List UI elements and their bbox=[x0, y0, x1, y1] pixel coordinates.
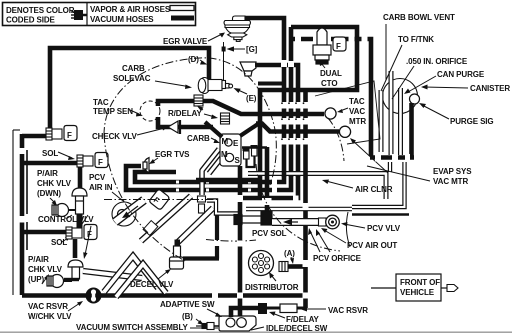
wire vertical bundle x284 bbox=[282, 66, 287, 177]
P/AIR check valve UP bbox=[47, 275, 72, 288]
hollow tube y209 air cleaner top bbox=[246, 207, 352, 212]
svg-text:PCV AIR OUT: PCV AIR OUT bbox=[347, 241, 397, 250]
svg-text:EGR VALVE: EGR VALVE bbox=[163, 37, 208, 46]
leader TAC VAC arrow bbox=[340, 108, 348, 111]
svg-text:VAC MTR: VAC MTR bbox=[433, 177, 468, 186]
svg-text:TAC: TAC bbox=[93, 98, 109, 107]
svg-text:CAN PURGE: CAN PURGE bbox=[437, 70, 485, 79]
wire R/DELAY line bbox=[158, 101, 324, 114]
label SOL upper bbox=[42, 149, 58, 158]
svg-text:CARB: CARB bbox=[122, 64, 145, 73]
svg-text:E: E bbox=[233, 139, 239, 148]
svg-text:VAC RSVR: VAC RSVR bbox=[28, 302, 68, 311]
dual CTO enclosure wires bbox=[260, 27, 357, 198]
svg-text:AIR IN: AIR IN bbox=[89, 183, 113, 192]
port B fitting bbox=[196, 323, 219, 330]
svg-text:DECEL VLV: DECEL VLV bbox=[130, 280, 174, 289]
label (D) bbox=[188, 55, 199, 64]
svg-text:ADAPTIVE SW: ADAPTIVE SW bbox=[160, 300, 215, 309]
label (E) bbox=[246, 94, 257, 103]
svg-text:F: F bbox=[336, 42, 341, 51]
svg-text:VAC: VAC bbox=[349, 107, 365, 116]
label EVAP SYS VAC MTR bbox=[433, 167, 472, 186]
svg-text:CTO: CTO bbox=[321, 79, 337, 88]
label CARB bbox=[187, 134, 210, 143]
label CONTROL VLV bbox=[38, 215, 94, 224]
leader SOL lower arrow bbox=[62, 238, 68, 242]
wire EGR valve to right bundle bbox=[245, 18, 284, 60]
svg-text:EGR TVS: EGR TVS bbox=[155, 150, 190, 159]
leader (D) arrow bbox=[200, 60, 204, 63]
label P/AIR CHK VLV (DWN) bbox=[37, 169, 72, 198]
leader ring arrow bbox=[68, 303, 80, 311]
svg-text:F/DELAY: F/DELAY bbox=[286, 315, 320, 324]
label DISTRIBUTOR bbox=[245, 283, 299, 292]
wire staircase corner x291 to row y190 bbox=[126, 166, 291, 190]
svg-text:VEHICLE: VEHICLE bbox=[400, 288, 435, 297]
air cleaner base line bbox=[352, 213, 409, 215]
leader (A) arrow bbox=[291, 257, 292, 261]
tilted F badge bbox=[149, 189, 170, 211]
svg-text:(DWN): (DWN) bbox=[37, 189, 61, 198]
wire stub to top solenoid bbox=[22, 134, 46, 139]
engine dash-dot outline curves bbox=[104, 58, 344, 261]
leader CANISTER arrow bbox=[424, 87, 468, 88]
hollow elbow tube at carb base bbox=[207, 201, 239, 214]
wire intake row under carb bbox=[196, 178, 262, 183]
wire vertical x305.5 from box bottom bbox=[303, 92, 308, 308]
leader TEMP SEN arrow bbox=[130, 110, 139, 114]
leader DISTRIBUTOR arrow bbox=[271, 275, 276, 281]
label ADAPTIVE SW bbox=[160, 300, 215, 309]
leader to UP cap bbox=[85, 226, 91, 255]
hollow tube pump to diagonals bbox=[83, 271, 142, 278]
legend vapor hose sample bbox=[170, 6, 194, 11]
carb box bbox=[220, 134, 241, 166]
svg-text:(UP): (UP) bbox=[28, 275, 44, 284]
EGR TVS mushroom bbox=[143, 158, 149, 173]
relay striped rect 2 bbox=[221, 113, 230, 124]
label (A) bbox=[284, 249, 295, 258]
leader PURGE SIG arrow bbox=[422, 105, 449, 119]
check valve cone bbox=[168, 120, 180, 134]
svg-text:CARB BOWL VENT: CARB BOWL VENT bbox=[383, 13, 455, 22]
svg-text:R/DELAY: R/DELAY bbox=[168, 109, 202, 118]
legend vacuum hose sample bbox=[171, 16, 194, 21]
wire bus to mid solenoid bbox=[22, 161, 77, 166]
carb fittings right side bbox=[243, 145, 258, 167]
EGR valve bbox=[224, 16, 251, 41]
leader EGR TVS arrow bbox=[152, 158, 158, 162]
label CAN PURGE bbox=[437, 70, 485, 79]
svg-text:P/AIR: P/AIR bbox=[37, 169, 58, 178]
wire lower solenoid down bbox=[73, 239, 78, 258]
TAC VAC MTR circle 1 bbox=[325, 108, 336, 119]
leader orifice bbox=[392, 66, 414, 99]
label PCV SOL bbox=[252, 229, 287, 238]
wire main vacuum line from (D) corner to left solenoid bbox=[50, 48, 209, 128]
wire decel riser bbox=[215, 213, 219, 259]
label DECEL VLV bbox=[130, 280, 174, 289]
leader AIR CLNR arrow bbox=[326, 181, 353, 188]
carb solevac cylinder bbox=[198, 78, 232, 94]
svg-text:[G]: [G] bbox=[246, 45, 258, 54]
label CARB BOWL VENT bbox=[383, 13, 455, 22]
canister circle bbox=[383, 79, 418, 114]
label PCV ORFICE bbox=[313, 254, 362, 263]
thin assembly boundary bbox=[12, 130, 14, 295]
svg-text:(E): (E) bbox=[246, 94, 257, 103]
label (B) bbox=[182, 312, 193, 321]
carb funnel diagonals bbox=[205, 122, 222, 137]
decel valve bbox=[170, 240, 184, 270]
svg-text:.050 IN. ORIFICE: .050 IN. ORIFICE bbox=[406, 57, 468, 66]
leader PCV VLV arrow bbox=[344, 224, 365, 228]
leader TO F/TNK bbox=[381, 45, 402, 91]
label PURGE SIG bbox=[450, 117, 494, 126]
svg-text:M: M bbox=[221, 150, 228, 159]
wire dual CTO inner stub right to canister feed bbox=[331, 39, 371, 156]
svg-text:TAC: TAC bbox=[349, 97, 365, 106]
svg-text:PURGE SIG: PURGE SIG bbox=[450, 117, 494, 126]
node TAC TEMP SEN dashed circle bbox=[140, 101, 160, 121]
wire canister bottom row bbox=[370, 155, 414, 160]
svg-text:PCV ORFICE: PCV ORFICE bbox=[313, 254, 362, 263]
svg-text:CODED SIDE: CODED SIDE bbox=[6, 16, 56, 25]
svg-text:PCV SOL: PCV SOL bbox=[252, 229, 287, 238]
purge sig circle bbox=[410, 94, 420, 104]
label .050 IN. ORIFICE bbox=[406, 57, 468, 66]
bottom page rule bbox=[0, 332, 512, 333]
svg-text:VAPOR & AIR HOSES: VAPOR & AIR HOSES bbox=[90, 5, 171, 14]
PCV hose hollow tube bbox=[272, 218, 326, 226]
leader CONTROL VLV arrows bbox=[66, 215, 72, 219]
wire pcv sol feed vertical bbox=[242, 146, 267, 149]
svg-text:F: F bbox=[67, 131, 72, 140]
leader SOL upper arrow bbox=[58, 152, 72, 158]
leader PCV AIR OUT bbox=[324, 230, 346, 243]
svg-text:SOL: SOL bbox=[51, 238, 67, 247]
label EGR VALVE bbox=[163, 37, 208, 46]
svg-text:CHECK VLV: CHECK VLV bbox=[92, 132, 137, 141]
legend connector icon bbox=[71, 10, 87, 20]
vac rsvr ring bbox=[86, 288, 102, 304]
leader (E) arrow bbox=[237, 90, 247, 95]
svg-text:EVAP SYS: EVAP SYS bbox=[433, 167, 472, 176]
connector squares canister bottom bbox=[375, 154, 410, 162]
svg-text:TEMP SEN: TEMP SEN bbox=[93, 107, 133, 116]
svg-text:VACUUM SWITCH ASSEMBLY: VACUUM SWITCH ASSEMBLY bbox=[76, 323, 188, 332]
distributor bbox=[249, 251, 274, 276]
label TO F/TNK bbox=[398, 35, 434, 44]
svg-text:VACUUM HOSES: VACUUM HOSES bbox=[90, 15, 154, 24]
hollow long tube y173 bbox=[248, 174, 386, 200]
vapor corner tube below canister bbox=[352, 162, 405, 207]
svg-text:CARB: CARB bbox=[187, 134, 210, 143]
label CANISTER bbox=[470, 84, 510, 93]
svg-text:DENOTES COLOR: DENOTES COLOR bbox=[6, 6, 75, 15]
leader CAN PURGE arrow bbox=[408, 76, 436, 92]
dual CTO valve bbox=[313, 28, 331, 64]
svg-text:CHK VLV: CHK VLV bbox=[28, 265, 63, 274]
svg-text:AIR CLNR: AIR CLNR bbox=[355, 185, 393, 194]
label VAC RSVR right bbox=[328, 306, 368, 315]
wire carb right to tac vac mtr line bbox=[256, 124, 339, 132]
svg-text:DUAL: DUAL bbox=[320, 69, 342, 78]
label VACUUM SWITCH ASSEMBLY bbox=[76, 323, 188, 332]
node (G) tick on thin stem bbox=[223, 42, 225, 81]
FRONT OF VEHICLE box bbox=[371, 274, 458, 301]
leader ADAPTIVE SW arrow bbox=[207, 309, 219, 315]
chevron hollow tubes bbox=[104, 256, 166, 297]
label F badge dual CTO bbox=[333, 37, 346, 51]
thin parallel line left bbox=[26, 150, 28, 250]
label PCV AIR OUT bbox=[347, 241, 397, 250]
svg-text:F: F bbox=[98, 158, 103, 167]
svg-text:(A): (A) bbox=[284, 249, 295, 258]
air cleaner side outline bbox=[346, 212, 350, 247]
svg-text:M: M bbox=[222, 137, 229, 146]
leader EGR VALVE arrow bbox=[208, 34, 222, 41]
label AIR CLNR bbox=[355, 185, 393, 194]
wire staircase corner x298 to row y198 bbox=[241, 175, 298, 198]
legend text left bbox=[6, 6, 75, 25]
leader R/DELAY arrows bbox=[200, 108, 203, 110]
label VAC RSVR W/CHK VLV bbox=[28, 302, 72, 321]
svg-text:DISTRIBUTOR: DISTRIBUTOR bbox=[245, 283, 299, 292]
svg-text:(B): (B) bbox=[182, 312, 193, 321]
label SOL lower bbox=[51, 238, 67, 247]
wire purge sig thick L bbox=[409, 103, 414, 156]
svg-text:SOLEVAC: SOLEVAC bbox=[113, 74, 151, 83]
label CARB SOLEVAC bbox=[113, 64, 151, 83]
svg-text:CANISTER: CANISTER bbox=[470, 84, 510, 93]
label PCV VLV bbox=[367, 224, 401, 233]
wire distributor to central vertical bbox=[288, 264, 304, 269]
leader F/DELAY arrow bbox=[272, 313, 285, 318]
label CHECK VLV bbox=[92, 132, 137, 141]
relay striped rect 1 bbox=[194, 95, 203, 106]
svg-text:PCV VLV: PCV VLV bbox=[367, 224, 401, 233]
label IDLE/DECEL SW bbox=[266, 324, 328, 333]
solenoid SOL F lower bbox=[66, 225, 97, 240]
hollow vertical tube below carb bbox=[198, 149, 227, 213]
wire left bus vertical bbox=[20, 134, 25, 295]
label EGR TVS bbox=[155, 150, 190, 159]
svg-text:W/CHK VLV: W/CHK VLV bbox=[28, 312, 72, 321]
label R/DELAY bbox=[168, 109, 202, 118]
pump circle bbox=[112, 202, 136, 226]
leader EVAP bbox=[367, 166, 430, 181]
wire dual CTO inner stub left bbox=[291, 37, 313, 42]
svg-text:CONTROL VLV: CONTROL VLV bbox=[38, 215, 94, 224]
svg-text:TO F/TNK: TO F/TNK bbox=[398, 35, 434, 44]
svg-text:CHK VLV: CHK VLV bbox=[37, 179, 72, 188]
leader PCV AIR IN arrow bbox=[112, 192, 128, 205]
leader CARB arrows bbox=[211, 138, 217, 141]
svg-text:PCV: PCV bbox=[89, 173, 106, 182]
connector white squares on verticals bbox=[212, 36, 368, 299]
label DUAL CTO bbox=[320, 69, 342, 88]
P/AIR check valve DWN bbox=[52, 204, 76, 217]
funnel fitting above solevac bbox=[240, 62, 256, 76]
svg-text:MTR: MTR bbox=[349, 117, 366, 126]
leader MTR arrow up from below bbox=[352, 140, 388, 173]
solenoid SOL F mid bbox=[77, 153, 108, 168]
svg-text:P/AIR: P/AIR bbox=[28, 255, 49, 264]
diagonal hollow tubes pair bbox=[141, 196, 213, 243]
legend box bbox=[3, 3, 196, 26]
control valve UP body bbox=[68, 260, 83, 279]
leader DECEL VLV arrow bbox=[158, 271, 168, 279]
leader VAC RSVR arrow bbox=[303, 308, 326, 310]
svg-text:VAC RSVR: VAC RSVR bbox=[328, 306, 368, 315]
label TAC TEMP SEN bbox=[93, 98, 133, 116]
hose white cores on rows bbox=[176, 181, 251, 192]
wire solevac E output to bundle bbox=[258, 82, 284, 86]
wire CHECK VLV line bbox=[158, 117, 213, 127]
leader DUAL CTO arrow bbox=[321, 63, 325, 68]
leader PCV ORFICE bbox=[310, 231, 320, 252]
tilted bracket outline near TAC VAC MTR bbox=[315, 81, 380, 144]
legend text right bbox=[90, 5, 171, 24]
vacuum switch assembly block bbox=[219, 316, 256, 331]
wire funnel to bundle bbox=[255, 65, 298, 177]
distributor cap connector bbox=[279, 262, 288, 272]
PCV VLV concentric circles bbox=[326, 215, 340, 229]
canister hollow tubes down bbox=[381, 71, 401, 155]
leader CHECK VLV bbox=[137, 128, 165, 135]
wire UP body to check valve bbox=[64, 278, 79, 281]
label TAC VAC MTR bbox=[349, 97, 366, 126]
label F/DELAY bbox=[286, 315, 320, 324]
wire bus to lower solenoid bbox=[22, 230, 66, 235]
wire mid solenoid down to control valve bbox=[78, 167, 83, 188]
svg-text:FRONT OF: FRONT OF bbox=[400, 278, 440, 287]
svg-text:SOL: SOL bbox=[42, 149, 58, 158]
svg-text:S: S bbox=[235, 156, 241, 165]
label P/AIR CHK VLV (UP) bbox=[28, 255, 63, 284]
control valve mushroom bbox=[72, 188, 87, 228]
wire staircase corner x284 to row y182 bbox=[135, 172, 284, 182]
wire main bottom line bbox=[22, 293, 307, 298]
wire carb bottom vertical down to assembly bbox=[238, 166, 243, 317]
thin stem carb bowl vent bbox=[385, 24, 387, 80]
PCV SOL device bbox=[234, 211, 272, 225]
leader (B) arrow bbox=[196, 319, 201, 323]
TAC VAC MTR circle 2 bbox=[339, 126, 350, 137]
leader DWN arrow bbox=[50, 198, 55, 203]
svg-text:(D): (D) bbox=[188, 55, 199, 64]
leader IDLE/DECEL bbox=[251, 327, 264, 330]
diagonal hollow tube with arrow bbox=[115, 200, 144, 222]
solenoid SOL F top bbox=[46, 126, 77, 141]
wire F/DELAY hose row bbox=[231, 308, 259, 317]
label PCV AIR IN bbox=[89, 173, 113, 192]
leader UP arrow bbox=[42, 277, 47, 284]
leader CARB SOLEVAC arrow bbox=[155, 81, 188, 87]
